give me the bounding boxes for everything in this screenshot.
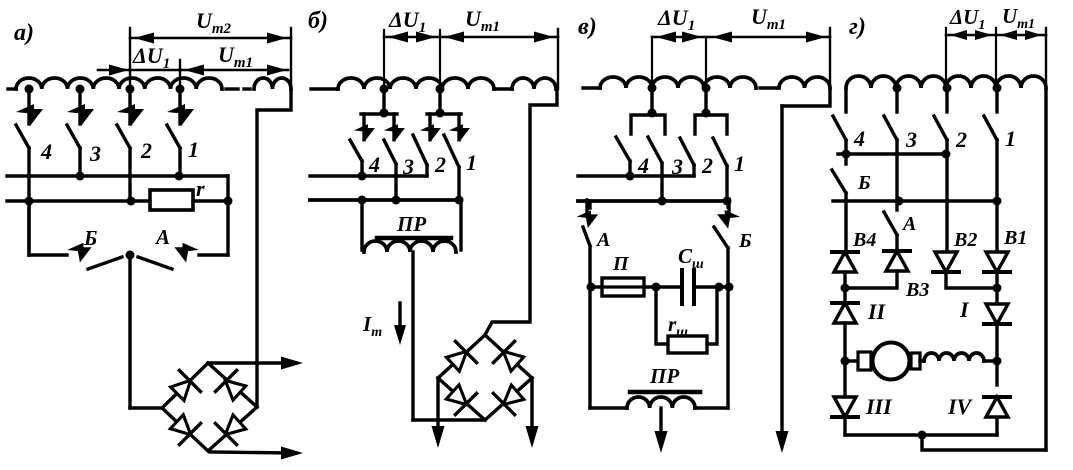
svg-text:II: II <box>867 299 887 324</box>
svg-text:Б: Б <box>857 172 871 194</box>
svg-text:I: I <box>959 297 970 322</box>
svg-text:3: 3 <box>905 127 917 152</box>
svg-text:В2: В2 <box>953 229 977 251</box>
svg-text:ПР: ПР <box>649 364 679 388</box>
svg-text:А: А <box>595 229 610 251</box>
svg-text:2: 2 <box>955 127 967 152</box>
svg-text:В4: В4 <box>852 229 876 251</box>
svg-text:П: П <box>612 253 630 275</box>
svg-text:4: 4 <box>368 152 380 177</box>
svg-text:III: III <box>865 394 893 419</box>
svg-text:3: 3 <box>402 154 414 179</box>
svg-text:б): б) <box>308 8 328 34</box>
svg-text:1: 1 <box>1005 126 1016 151</box>
svg-text:а): а) <box>14 20 34 46</box>
svg-text:2: 2 <box>701 153 713 178</box>
svg-text:В1: В1 <box>1003 227 1027 249</box>
svg-text:3: 3 <box>89 141 101 166</box>
svg-text:ПР: ПР <box>396 212 426 236</box>
svg-text:4: 4 <box>637 153 649 178</box>
svg-text:в): в) <box>578 14 597 40</box>
svg-text:А: А <box>154 225 170 249</box>
svg-text:1: 1 <box>188 137 199 162</box>
svg-text:А: А <box>901 213 916 235</box>
svg-text:1: 1 <box>734 151 745 176</box>
svg-text:2: 2 <box>434 152 446 177</box>
svg-text:Б: Б <box>83 226 97 250</box>
svg-text:4: 4 <box>853 126 865 151</box>
svg-text:2: 2 <box>140 138 152 163</box>
svg-text:1: 1 <box>466 150 477 175</box>
svg-text:г): г) <box>849 14 866 40</box>
svg-text:IV: IV <box>947 394 974 419</box>
svg-text:Б: Б <box>738 230 752 252</box>
svg-text:4: 4 <box>40 139 52 164</box>
svg-text:r: r <box>196 176 205 201</box>
svg-text:В3: В3 <box>905 279 929 301</box>
svg-text:3: 3 <box>671 154 683 179</box>
